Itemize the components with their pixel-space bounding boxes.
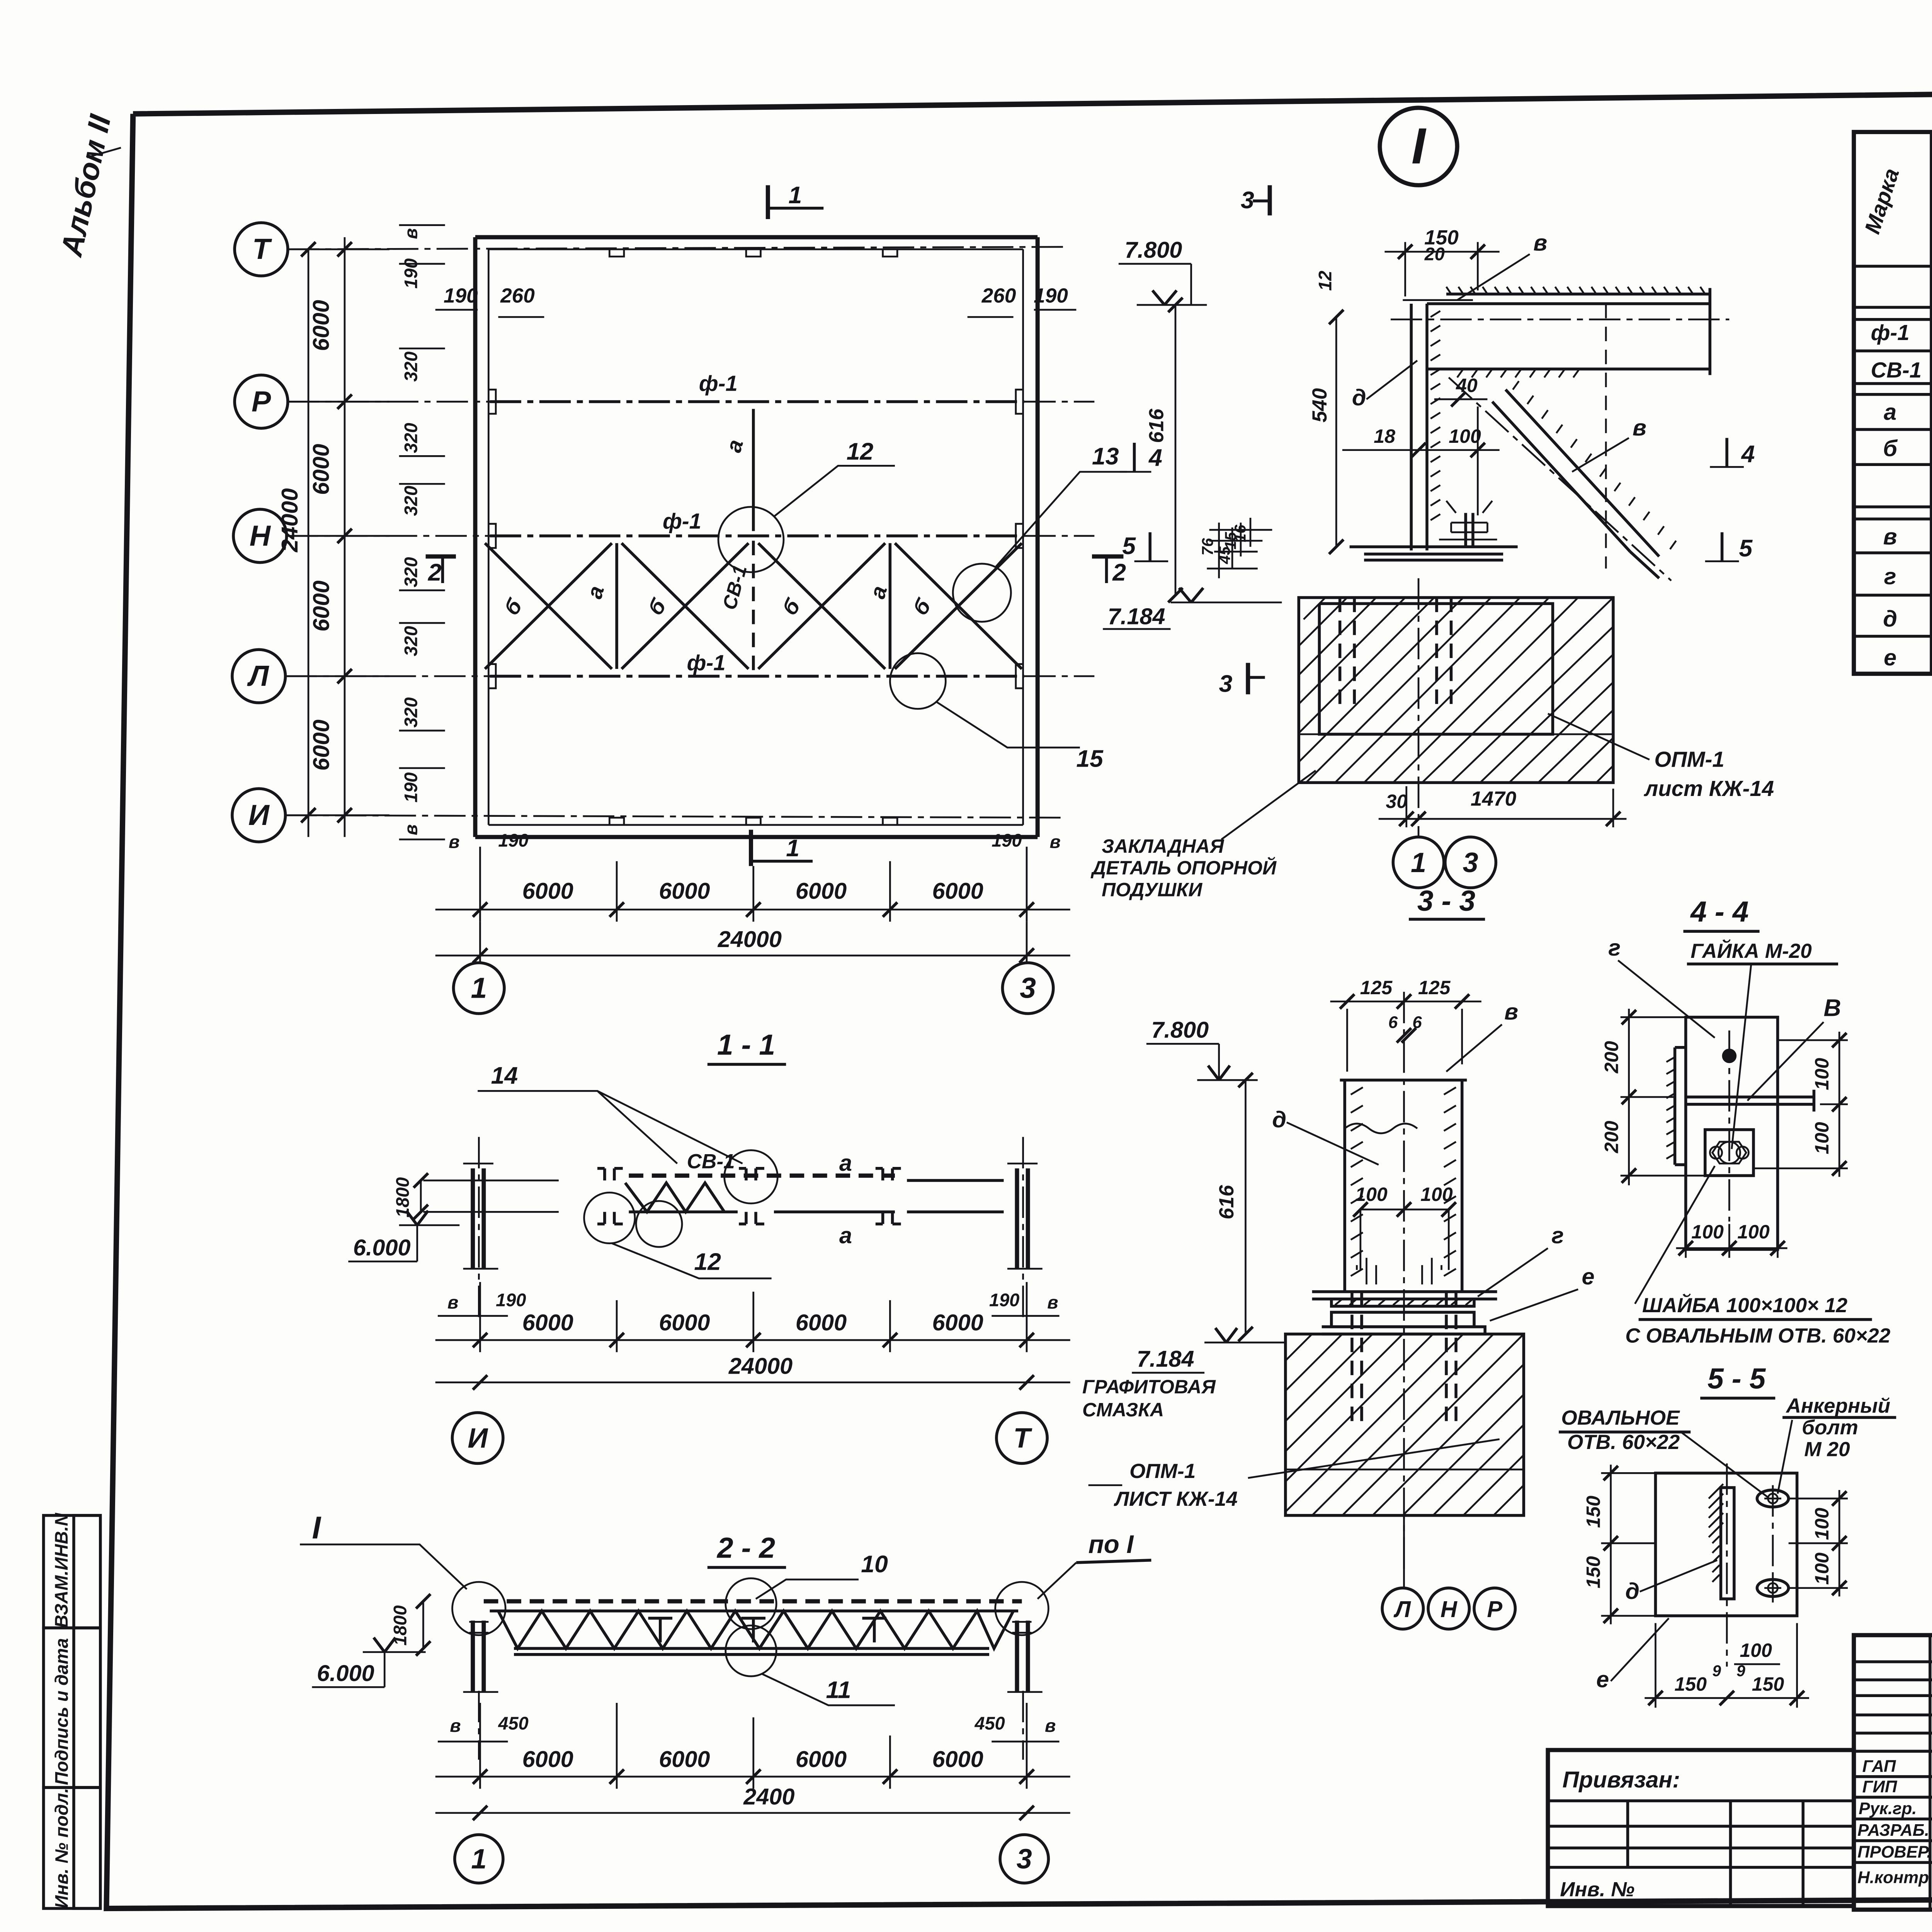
diagonal brace double line bbox=[1492, 389, 1659, 556]
svg-text:ГАЙКА М-20: ГАЙКА М-20 bbox=[1690, 939, 1812, 963]
svg-text:ф-1: ф-1 bbox=[687, 650, 726, 675]
line under project name bbox=[1854, 1751, 1932, 1752]
section cut 2 left bbox=[426, 556, 456, 557]
svg-text:в: в bbox=[1504, 999, 1518, 1025]
vertical dashed stiffener bbox=[1605, 304, 1606, 568]
svg-text:200: 200 bbox=[1600, 1041, 1622, 1074]
wall left bbox=[474, 237, 476, 837]
svg-text:150: 150 bbox=[1752, 1673, 1784, 1695]
svg-text:6000: 6000 bbox=[308, 580, 334, 631]
svg-text:7.800: 7.800 bbox=[1151, 1017, 1209, 1043]
axis line L / truss F-1 bbox=[286, 676, 490, 677]
washer square with nut bbox=[1705, 1130, 1753, 1176]
dim 1800 left bbox=[420, 1180, 421, 1212]
dims 18 100 bbox=[1342, 450, 1500, 451]
svg-text:200: 200 bbox=[1600, 1121, 1622, 1153]
svg-text:5 - 5: 5 - 5 bbox=[1708, 1362, 1766, 1395]
svg-text:320: 320 bbox=[401, 486, 421, 516]
svg-text:6000: 6000 bbox=[659, 1746, 710, 1772]
grid circles 1 3 bbox=[455, 1835, 503, 1883]
svg-text:100: 100 bbox=[1811, 1508, 1833, 1540]
dim 100 100 right bbox=[1789, 1498, 1848, 1588]
dim line 6000s bbox=[435, 1340, 1070, 1340]
svg-text:a: a bbox=[1884, 399, 1896, 425]
privyazan box bbox=[1548, 1750, 1854, 1906]
vertical tie a members bbox=[617, 543, 890, 669]
wall pilasters left bbox=[488, 389, 496, 688]
foundation top bbox=[1286, 1334, 1524, 1515]
axis to grid circles bbox=[1404, 1515, 1405, 1588]
center axis bbox=[1418, 578, 1419, 837]
svg-text:в: в bbox=[1050, 832, 1061, 852]
svg-text:125: 125 bbox=[1418, 977, 1451, 998]
svg-text:д: д bbox=[1352, 384, 1366, 410]
axis line I bbox=[286, 815, 1066, 818]
svg-text:320: 320 bbox=[401, 423, 421, 453]
main stamp box bbox=[1854, 1635, 1932, 1910]
grid circle I bbox=[232, 789, 286, 842]
svg-text:18: 18 bbox=[1374, 425, 1395, 447]
svg-text:ГИП: ГИП bbox=[1862, 1777, 1898, 1796]
svg-text:190: 190 bbox=[498, 830, 528, 850]
dim 150 top bbox=[1405, 242, 1478, 296]
svg-text:М 20: М 20 bbox=[1804, 1438, 1850, 1461]
horizontal row lines bbox=[1854, 266, 1932, 267]
svg-text:450: 450 bbox=[498, 1713, 528, 1733]
svg-text:6000: 6000 bbox=[308, 444, 334, 495]
svg-text:в: в bbox=[449, 832, 459, 852]
svg-text:б: б bbox=[1883, 435, 1898, 461]
svg-text:СМАЗКА: СМАЗКА bbox=[1082, 1399, 1164, 1420]
svg-text:1470: 1470 bbox=[1471, 787, 1517, 810]
dim 30 1470 bbox=[1379, 786, 1627, 827]
stiffener bar bbox=[1721, 1488, 1734, 1599]
grid circles bbox=[452, 1413, 503, 1463]
svg-text:И: И bbox=[248, 799, 270, 831]
svg-text:В: В bbox=[1823, 994, 1841, 1021]
svg-text:1: 1 bbox=[471, 1844, 486, 1875]
svg-text:ШАЙБА 100×100× 12: ШАЙБА 100×100× 12 bbox=[1642, 1293, 1848, 1317]
svg-text:5: 5 bbox=[1739, 535, 1753, 562]
grid circle 3 bottom bbox=[1002, 963, 1053, 1014]
svg-text:Инв. №: Инв. № bbox=[1560, 1878, 1634, 1901]
dim 100 100 bottom bbox=[1686, 1224, 1778, 1258]
svg-text:I: I bbox=[312, 1510, 321, 1545]
plate body bbox=[1686, 1017, 1778, 1250]
column center axis bbox=[1404, 992, 1405, 1572]
svg-text:3: 3 bbox=[1020, 971, 1036, 1004]
column base assembly bbox=[1350, 547, 1518, 560]
dim 100 100 right bbox=[1753, 1040, 1848, 1168]
left margin attribute boxes bbox=[44, 1515, 100, 1628]
axis line H / truss F-1 bbox=[287, 536, 490, 536]
section marks 5 bbox=[1150, 532, 1150, 561]
svg-text:100: 100 bbox=[1449, 425, 1481, 447]
leader 12 detail circle bbox=[718, 507, 784, 572]
svg-text:320: 320 bbox=[401, 557, 421, 587]
grid circle P bbox=[235, 375, 288, 429]
wall pilasters top and bottom bbox=[609, 249, 897, 257]
svg-text:Т: Т bbox=[1014, 1423, 1033, 1454]
wall right bbox=[1037, 237, 1038, 837]
svg-text:9: 9 bbox=[1736, 1662, 1745, 1680]
chord bracket symbols top bbox=[597, 1168, 901, 1180]
header split lines bbox=[1931, 163, 1932, 164]
dim 540 bbox=[1336, 317, 1337, 547]
svg-text:в: в bbox=[401, 824, 421, 835]
svg-text:ВЗАМ.ИНВ.N: ВЗАМ.ИНВ.N bbox=[51, 1512, 71, 1628]
svg-text:3 - 3: 3 - 3 bbox=[1417, 884, 1475, 917]
axis line P / truss F-1 bbox=[288, 401, 490, 402]
plate bbox=[1655, 1473, 1797, 1616]
svg-text:6000: 6000 bbox=[522, 1746, 573, 1772]
svg-text:е: е bbox=[1582, 1264, 1595, 1289]
svg-text:6000: 6000 bbox=[659, 878, 710, 904]
svg-text:3: 3 bbox=[1017, 1844, 1032, 1875]
svg-text:г: г bbox=[1884, 563, 1896, 589]
upper rows left bbox=[1854, 1662, 1932, 1733]
svg-text:ГРАФИТОВАЯ: ГРАФИТОВАЯ bbox=[1082, 1376, 1216, 1398]
dim 40 bbox=[1434, 399, 1488, 400]
truss end beam block bbox=[1427, 288, 1710, 375]
dim 1800 bbox=[423, 1601, 423, 1648]
svg-text:1: 1 bbox=[789, 182, 802, 209]
X bracing bay 2 bbox=[622, 543, 749, 669]
svg-text:6000: 6000 bbox=[796, 878, 847, 904]
svg-text:7.184: 7.184 bbox=[1108, 603, 1165, 629]
svg-text:в: в bbox=[450, 1716, 461, 1736]
grid circle T bbox=[235, 223, 288, 276]
svg-text:Р: Р bbox=[1487, 1596, 1502, 1622]
leader po I bbox=[1037, 1563, 1076, 1599]
svg-text:100: 100 bbox=[1355, 1184, 1388, 1205]
svg-text:ОТВ. 60×22: ОТВ. 60×22 bbox=[1567, 1431, 1680, 1454]
foundation hatch bbox=[1286, 1334, 1524, 1515]
chord bracket symbols bottom bbox=[597, 1212, 901, 1224]
svg-text:6: 6 bbox=[1388, 1013, 1398, 1032]
anchor bolts dashed bbox=[1340, 598, 1451, 708]
svg-text:150: 150 bbox=[1674, 1673, 1707, 1695]
svg-text:100: 100 bbox=[1740, 1639, 1772, 1661]
svg-text:2 - 2: 2 - 2 bbox=[716, 1531, 775, 1564]
X bracing bay 3 bbox=[758, 543, 885, 669]
svg-text:100: 100 bbox=[1811, 1553, 1833, 1585]
center axis bbox=[1726, 1463, 1727, 1667]
svg-text:100: 100 bbox=[1811, 1058, 1833, 1090]
svg-text:190: 190 bbox=[992, 830, 1022, 850]
dim chain 6000 vertical bbox=[344, 237, 345, 837]
svg-text:ф-1: ф-1 bbox=[699, 371, 738, 395]
svg-text:в: в bbox=[1633, 415, 1646, 440]
svg-text:3: 3 bbox=[1241, 187, 1254, 214]
svg-text:ф-1: ф-1 bbox=[1871, 320, 1910, 345]
svg-text:6000: 6000 bbox=[796, 1310, 847, 1335]
svg-text:Т: Т bbox=[252, 233, 272, 265]
left column bbox=[473, 1621, 484, 1692]
svg-text:ОПМ-1: ОПМ-1 bbox=[1129, 1460, 1196, 1483]
section cut 1 bottom bbox=[750, 830, 752, 866]
left flange strip bbox=[1675, 1048, 1686, 1165]
svg-text:2400: 2400 bbox=[743, 1784, 794, 1810]
vertical column lines bbox=[1931, 132, 1932, 674]
svg-text:9: 9 bbox=[1713, 1662, 1721, 1680]
svg-text:7.184: 7.184 bbox=[1137, 1346, 1194, 1372]
svg-text:I: I bbox=[1412, 117, 1427, 174]
dim line 6000s bbox=[435, 1776, 1070, 1777]
svg-text:30: 30 bbox=[1386, 791, 1408, 812]
svg-text:190: 190 bbox=[989, 1290, 1019, 1310]
svg-text:е: е bbox=[1596, 1666, 1609, 1692]
top chord line left bbox=[423, 1180, 559, 1212]
svg-text:1: 1 bbox=[471, 971, 487, 1004]
truss webs zigzag bbox=[498, 1611, 1013, 1648]
svg-text:13: 13 bbox=[1092, 443, 1119, 470]
svg-text:6000: 6000 bbox=[932, 1310, 983, 1335]
svg-text:6000: 6000 bbox=[522, 878, 573, 904]
break squiggle on column bbox=[1345, 1124, 1417, 1133]
svg-text:260: 260 bbox=[500, 284, 535, 307]
base angle cleats bbox=[1357, 1258, 1441, 1284]
svg-text:4: 4 bbox=[1741, 440, 1755, 468]
svg-text:1: 1 bbox=[786, 835, 799, 862]
mid connection symbols bbox=[648, 1618, 886, 1643]
table outer box bbox=[1854, 132, 1932, 674]
dim 616 bbox=[1175, 305, 1176, 595]
svg-text:6000: 6000 bbox=[796, 1746, 847, 1772]
svg-text:ДЕТАЛЬ ОПОРНОЙ: ДЕТАЛЬ ОПОРНОЙ bbox=[1090, 857, 1277, 879]
svg-text:Н: Н bbox=[1440, 1596, 1458, 1622]
svg-text:ПРОВЕР.: ПРОВЕР. bbox=[1857, 1843, 1932, 1862]
svg-text:ОВАЛЬНОЕ: ОВАЛЬНОЕ bbox=[1561, 1406, 1680, 1429]
svg-text:Анкерный: Анкерный bbox=[1785, 1395, 1890, 1417]
svg-text:лист КЖ-14: лист КЖ-14 bbox=[1643, 776, 1774, 801]
svg-text:в: в bbox=[401, 228, 421, 239]
svg-text:320: 320 bbox=[401, 697, 421, 728]
oval holes with bolts bbox=[1757, 1490, 1788, 1507]
svg-text:1 - 1: 1 - 1 bbox=[717, 1029, 775, 1061]
bottom dim 24000 bbox=[435, 955, 1070, 956]
svg-text:260: 260 bbox=[981, 284, 1016, 307]
wall pilasters right bbox=[1016, 389, 1023, 688]
axis line T bbox=[288, 247, 1065, 249]
svg-text:6000: 6000 bbox=[932, 1746, 983, 1772]
svg-text:125: 125 bbox=[1360, 977, 1393, 998]
svg-text:150: 150 bbox=[1583, 1496, 1604, 1528]
svg-text:болт: болт bbox=[1802, 1416, 1858, 1439]
svg-text:5: 5 bbox=[1122, 532, 1136, 560]
bottom dim line 6000 x4 bbox=[480, 847, 1027, 922]
svg-text:в: в bbox=[447, 1293, 458, 1313]
grid circle 1 bottom bbox=[480, 922, 480, 963]
leader 15 detail circle bbox=[890, 653, 946, 709]
foundation block hatched bbox=[1299, 598, 1613, 783]
svg-text:6000: 6000 bbox=[522, 1310, 573, 1335]
section cut 2 right bbox=[1092, 556, 1123, 557]
svg-text:6.000: 6.000 bbox=[353, 1235, 411, 1260]
svg-text:100: 100 bbox=[1811, 1122, 1833, 1155]
svg-text:6000: 6000 bbox=[659, 1310, 710, 1335]
svg-text:1: 1 bbox=[1411, 847, 1426, 878]
svg-text:СВ-1: СВ-1 bbox=[687, 1150, 735, 1173]
svg-text:в: в bbox=[1047, 1293, 1058, 1313]
detail circles bbox=[724, 1150, 778, 1204]
dim 150 150 left bbox=[1611, 1464, 1611, 1624]
svg-text:6000: 6000 bbox=[932, 878, 983, 904]
svg-text:10: 10 bbox=[861, 1551, 888, 1578]
svg-text:по I: по I bbox=[1088, 1530, 1134, 1558]
right column bbox=[1017, 1621, 1028, 1692]
svg-text:a: a bbox=[839, 1223, 852, 1248]
svg-text:150: 150 bbox=[1583, 1556, 1604, 1588]
svg-text:616: 616 bbox=[1145, 408, 1168, 443]
svg-text:д: д bbox=[1883, 606, 1897, 632]
vertical tie a upper and CB-1 dashed bbox=[753, 409, 754, 531]
svg-text:4 - 4: 4 - 4 bbox=[1690, 895, 1748, 928]
svg-text:Л: Л bbox=[1393, 1596, 1411, 1622]
svg-text:24000: 24000 bbox=[277, 488, 303, 553]
zigzag bracing bbox=[625, 1183, 724, 1212]
truss top chord dashed bbox=[484, 1600, 1022, 1602]
bolt dot bbox=[1722, 1049, 1737, 1063]
svg-text:Привязан:: Привязан: bbox=[1562, 1767, 1680, 1793]
rail member bbox=[1686, 1090, 1814, 1111]
X bracing bay 4 bbox=[895, 543, 1022, 669]
svg-text:7.800: 7.800 bbox=[1125, 237, 1182, 263]
grid circle L bbox=[232, 650, 286, 703]
svg-text:100: 100 bbox=[1737, 1221, 1770, 1243]
svg-text:15: 15 bbox=[1076, 745, 1104, 772]
svg-text:РАЗРАБ.: РАЗРАБ. bbox=[1857, 1821, 1929, 1840]
lower bearing plate bbox=[1332, 1312, 1474, 1327]
svg-text:ЛИСТ КЖ-14: ЛИСТ КЖ-14 bbox=[1114, 1488, 1238, 1510]
svg-text:в: в bbox=[1533, 230, 1547, 255]
seat plates bbox=[1312, 1292, 1497, 1299]
svg-text:ПОДУШКИ: ПОДУШКИ bbox=[1102, 879, 1202, 901]
right column bbox=[1017, 1168, 1028, 1269]
svg-text:450: 450 bbox=[974, 1713, 1005, 1733]
grid circles L N R bbox=[1382, 1588, 1423, 1629]
svg-text:в: в bbox=[1045, 1716, 1056, 1736]
svg-text:3: 3 bbox=[1219, 670, 1233, 697]
grid circle H bbox=[233, 509, 287, 563]
dim 616 bbox=[1245, 1080, 1246, 1334]
dim 125 125 bbox=[1330, 1002, 1481, 1072]
dashed chords CB-1 bbox=[629, 1175, 895, 1177]
svg-text:12: 12 bbox=[1315, 270, 1335, 291]
svg-text:190: 190 bbox=[401, 259, 421, 289]
staff rows bbox=[1854, 1777, 1932, 1862]
section cut 1 top bbox=[767, 185, 769, 219]
vertical lines bbox=[1930, 1635, 1932, 1910]
leader 11 bbox=[762, 1674, 895, 1705]
wall bottom bbox=[475, 836, 1037, 838]
svg-text:д: д bbox=[1272, 1106, 1286, 1132]
svg-text:ф-1: ф-1 bbox=[663, 509, 701, 533]
svg-text:Н.контр: Н.контр bbox=[1857, 1868, 1929, 1887]
svg-text:СВ-1: СВ-1 bbox=[1871, 358, 1922, 382]
svg-text:6000: 6000 bbox=[308, 300, 334, 351]
truss bottom chord bbox=[514, 1648, 989, 1655]
svg-text:в: в bbox=[1883, 524, 1897, 549]
svg-text:320: 320 bbox=[401, 626, 421, 656]
svg-text:Р: Р bbox=[252, 385, 271, 418]
svg-text:С ОВАЛЬНЫМ ОТВ. 60×22: С ОВАЛЬНЫМ ОТВ. 60×22 bbox=[1625, 1324, 1891, 1347]
top chord deck plate hatched bbox=[1427, 303, 1710, 304]
svg-text:190: 190 bbox=[444, 284, 478, 307]
svg-text:100: 100 bbox=[1420, 1184, 1453, 1205]
svg-text:190: 190 bbox=[496, 1290, 526, 1310]
svg-text:ГАП: ГАП bbox=[1862, 1757, 1896, 1776]
svg-text:д: д bbox=[1625, 1578, 1639, 1604]
svg-text:ЗАКЛАДНАЯ: ЗАКЛАДНАЯ bbox=[1102, 835, 1225, 857]
dim 24000 vertical bbox=[308, 249, 309, 837]
svg-text:е: е bbox=[1884, 645, 1896, 670]
svg-text:Н: Н bbox=[250, 519, 271, 552]
svg-text:100: 100 bbox=[1691, 1221, 1724, 1243]
svg-text:11: 11 bbox=[826, 1676, 851, 1703]
svg-text:г: г bbox=[1551, 1223, 1564, 1248]
svg-text:ОПМ-1: ОПМ-1 bbox=[1654, 747, 1724, 772]
svg-text:24000: 24000 bbox=[718, 926, 782, 952]
svg-text:20: 20 bbox=[1424, 244, 1445, 264]
svg-text:Рук.гр.: Рук.гр. bbox=[1859, 1799, 1917, 1818]
svg-text:1800: 1800 bbox=[393, 1177, 413, 1218]
dim 24000 bbox=[435, 1382, 1070, 1383]
dim 200 200 left bbox=[1621, 1017, 1705, 1176]
svg-text:320: 320 bbox=[401, 352, 421, 382]
svg-text:6.000: 6.000 bbox=[317, 1660, 374, 1686]
dim 2400 bbox=[435, 1813, 1070, 1813]
svg-text:Подпись и дата: Подпись и дата bbox=[51, 1638, 71, 1785]
leader 12 bbox=[612, 1243, 772, 1279]
svg-text:14: 14 bbox=[491, 1062, 518, 1089]
svg-text:190: 190 bbox=[1034, 284, 1068, 307]
svg-text:12: 12 bbox=[847, 438, 874, 465]
weld ticks on column bbox=[1430, 311, 1440, 520]
section marks 4 bbox=[1134, 443, 1134, 472]
svg-text:3: 3 bbox=[1463, 847, 1478, 878]
svg-text:12: 12 bbox=[694, 1248, 721, 1276]
svg-text:a: a bbox=[839, 1150, 852, 1176]
left column bbox=[473, 1168, 484, 1269]
svg-text:616: 616 bbox=[1215, 1185, 1238, 1219]
svg-text:40: 40 bbox=[1456, 374, 1478, 396]
detail circles bbox=[452, 1582, 505, 1635]
svg-text:540: 540 bbox=[1308, 388, 1331, 422]
leader 13 detail circle bbox=[953, 564, 1011, 622]
svg-text:Л: Л bbox=[247, 660, 269, 692]
column stalk bbox=[1411, 304, 1427, 550]
svg-text:6000: 6000 bbox=[308, 719, 334, 770]
svg-text:24000: 24000 bbox=[728, 1353, 793, 1379]
column shaft bbox=[1345, 1080, 1462, 1292]
svg-text:190: 190 bbox=[401, 772, 421, 803]
node I circle bbox=[1380, 108, 1457, 185]
grid circles 1 3 bbox=[1393, 837, 1444, 888]
wall top bbox=[475, 236, 1037, 238]
svg-text:2: 2 bbox=[428, 559, 442, 586]
anchor bolts dashed bbox=[1352, 1292, 1456, 1427]
svg-text:И: И bbox=[468, 1423, 488, 1454]
svg-text:Инв. № подл.: Инв. № подл. bbox=[51, 1788, 71, 1908]
svg-text:4: 4 bbox=[1148, 444, 1162, 471]
X bracing bay 1 bbox=[485, 543, 612, 669]
truss axis dash-dot bbox=[1391, 319, 1729, 320]
svg-text:2: 2 bbox=[1112, 559, 1126, 586]
svg-text:г: г bbox=[1608, 935, 1621, 961]
